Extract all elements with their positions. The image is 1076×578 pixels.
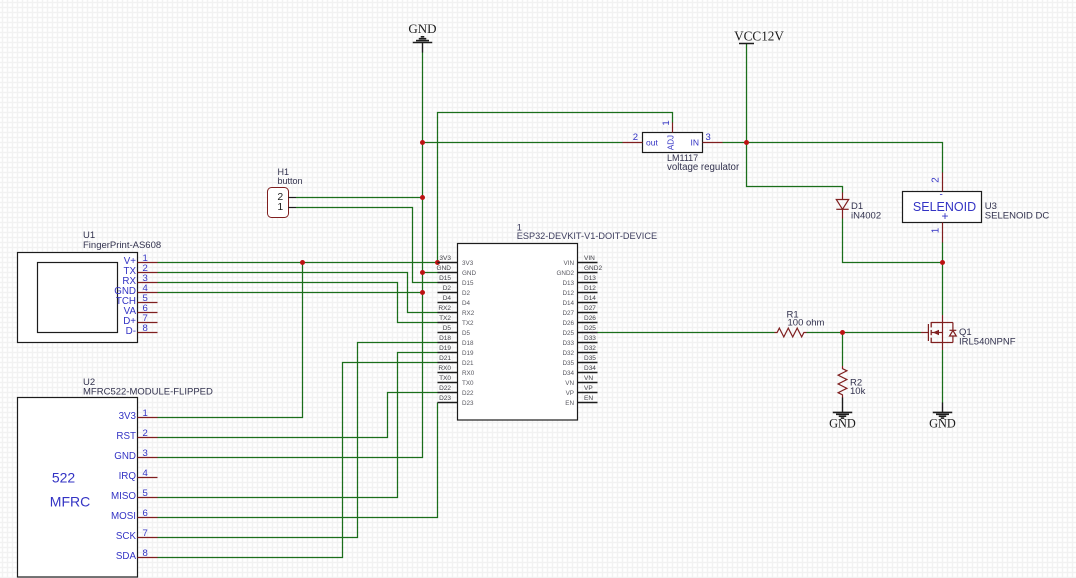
svg-text:1: 1	[143, 408, 148, 419]
svg-text:ESP32-DEVKIT-V1-DOIT-DEVICE: ESP32-DEVKIT-V1-DOIT-DEVICE	[517, 231, 657, 241]
svg-text:VN: VN	[565, 380, 574, 387]
svg-text:D13: D13	[584, 275, 596, 282]
svg-text:GND: GND	[408, 21, 436, 36]
svg-text:IRQ: IRQ	[119, 471, 137, 482]
svg-text:button: button	[278, 176, 303, 186]
svg-text:D5: D5	[443, 325, 452, 332]
svg-text:RST: RST	[116, 431, 136, 442]
svg-text:1: 1	[661, 120, 672, 125]
svg-text:D4: D4	[462, 300, 471, 307]
svg-text:5: 5	[143, 488, 148, 499]
svg-text:VP: VP	[566, 390, 574, 397]
svg-text:MFRC522-MODULE-FLIPPED: MFRC522-MODULE-FLIPPED	[83, 387, 213, 398]
svg-text:D21: D21	[462, 360, 474, 367]
svg-text:8: 8	[143, 323, 148, 334]
svg-text:D34: D34	[584, 365, 596, 372]
svg-text:D33: D33	[584, 335, 596, 342]
svg-text:D25: D25	[584, 325, 596, 332]
svg-text:EN: EN	[565, 400, 574, 407]
svg-text:D14: D14	[584, 295, 596, 302]
svg-text:VCC12V: VCC12V	[734, 29, 784, 44]
svg-text:MOSI: MOSI	[111, 511, 136, 522]
svg-text:GND: GND	[929, 417, 956, 431]
svg-text:IRL540NPNF: IRL540NPNF	[959, 337, 1016, 348]
svg-text:D15: D15	[462, 280, 474, 287]
svg-text:D22: D22	[462, 390, 474, 397]
svg-text:VN: VN	[584, 375, 593, 382]
svg-text:D35: D35	[584, 355, 596, 362]
svg-text:7: 7	[143, 528, 148, 539]
svg-text:D14: D14	[562, 300, 574, 307]
svg-text:D12: D12	[562, 290, 574, 297]
svg-text:MISO: MISO	[111, 491, 136, 502]
svg-text:IN: IN	[691, 138, 700, 148]
svg-text:D21: D21	[439, 355, 451, 362]
svg-text:D35: D35	[562, 360, 574, 367]
svg-text:D23: D23	[462, 400, 474, 407]
svg-text:GND: GND	[829, 417, 856, 431]
svg-text:D25: D25	[562, 330, 574, 337]
svg-text:D13: D13	[562, 280, 574, 287]
svg-text:D-: D-	[126, 326, 136, 337]
svg-text:D34: D34	[562, 370, 574, 377]
svg-text:D19: D19	[462, 350, 474, 357]
svg-text:GND2: GND2	[557, 270, 575, 277]
svg-text:3: 3	[706, 132, 711, 143]
svg-text:10k: 10k	[850, 386, 866, 397]
svg-text:D22: D22	[439, 385, 451, 392]
svg-text:SDA: SDA	[116, 551, 137, 562]
svg-text:out: out	[646, 138, 658, 148]
svg-text:2: 2	[930, 177, 941, 182]
svg-text:GND: GND	[437, 265, 452, 272]
svg-text:RX0: RX0	[438, 365, 451, 372]
svg-text:TX2: TX2	[439, 315, 451, 322]
svg-text:VIN: VIN	[564, 260, 575, 267]
svg-text:GND: GND	[462, 270, 476, 277]
svg-text:100 ohm: 100 ohm	[788, 318, 825, 329]
svg-text:D18: D18	[439, 335, 451, 342]
svg-text:3V3: 3V3	[119, 411, 137, 422]
svg-text:D12: D12	[584, 285, 596, 292]
svg-text:D32: D32	[584, 345, 596, 352]
svg-text:SCK: SCK	[116, 531, 137, 542]
svg-text:3: 3	[143, 448, 148, 459]
svg-text:RX2: RX2	[462, 310, 475, 317]
svg-text:3V3: 3V3	[462, 260, 474, 267]
svg-text:D27: D27	[584, 305, 596, 312]
svg-text:D26: D26	[584, 315, 596, 322]
svg-text:VIN: VIN	[584, 255, 595, 262]
svg-text:D4: D4	[443, 295, 452, 302]
svg-text:1: 1	[277, 201, 283, 213]
svg-text:RX0: RX0	[462, 370, 475, 377]
svg-text:D5: D5	[462, 330, 471, 337]
svg-text:SELENOID DC: SELENOID DC	[985, 211, 1050, 222]
svg-text:D26: D26	[562, 320, 574, 327]
svg-text:D2: D2	[462, 290, 471, 297]
svg-text:D27: D27	[562, 310, 574, 317]
svg-text:TX0: TX0	[462, 380, 474, 387]
svg-text:3V3: 3V3	[439, 255, 451, 262]
svg-text:D15: D15	[439, 275, 451, 282]
svg-text:4: 4	[143, 468, 148, 479]
svg-text:6: 6	[143, 508, 148, 519]
svg-text:ADJ: ADJ	[667, 135, 676, 150]
svg-text:D32: D32	[562, 350, 574, 357]
svg-text:MFRC: MFRC	[50, 494, 90, 510]
svg-text:EN: EN	[584, 395, 593, 402]
svg-text:2: 2	[633, 132, 638, 143]
svg-text:1: 1	[930, 228, 941, 233]
svg-text:VP: VP	[584, 385, 593, 392]
svg-text:TX0: TX0	[439, 375, 451, 382]
svg-text:D2: D2	[443, 285, 452, 292]
svg-text:D23: D23	[439, 395, 451, 402]
svg-text:iN4002: iN4002	[851, 211, 881, 222]
svg-text:+: +	[942, 209, 949, 223]
svg-text:GND2: GND2	[584, 265, 602, 272]
svg-text:2: 2	[143, 428, 148, 439]
svg-text:RX2: RX2	[438, 305, 451, 312]
svg-text:522: 522	[52, 470, 76, 486]
svg-text:-: -	[940, 190, 943, 201]
svg-text:D33: D33	[562, 340, 574, 347]
svg-text:voltage regulator: voltage regulator	[667, 162, 740, 173]
svg-text:TX2: TX2	[462, 320, 474, 327]
svg-text:8: 8	[143, 548, 148, 559]
svg-text:D18: D18	[462, 340, 474, 347]
svg-text:D19: D19	[439, 345, 451, 352]
svg-text:FingerPrint-AS608: FingerPrint-AS608	[83, 240, 161, 251]
svg-text:GND: GND	[114, 451, 136, 462]
